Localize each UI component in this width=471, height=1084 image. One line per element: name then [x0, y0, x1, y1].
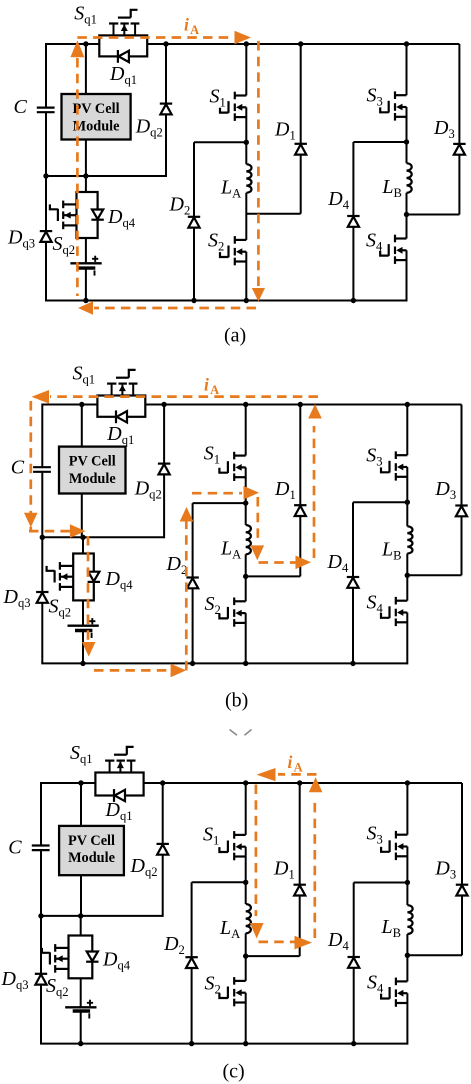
- svg-text:S4: S4: [367, 972, 384, 996]
- wire S2 source to bottom rail (c): [245, 993, 247, 1044]
- svg-text:iA: iA: [288, 752, 303, 775]
- wire Dq2 column (a): [165, 44, 167, 177]
- current path iA elbow to Sq2 with right arrow (b): [29, 524, 85, 538]
- wire battery to bottom rail (a): [85, 268, 87, 300]
- svg-text:Dq1: Dq1: [105, 799, 133, 823]
- svg-text:D3: D3: [433, 117, 455, 141]
- svg-text:(a): (a): [224, 325, 246, 347]
- wire LA lower node to D1 (b): [246, 575, 301, 577]
- wire PV feed from top rail (c): [80, 783, 82, 826]
- node LA output (b): [243, 574, 248, 579]
- wire node B to inductor LB (c): [406, 883, 408, 906]
- svg-text:D4: D4: [327, 551, 349, 575]
- current path iA right vertical with up arrow (c): [309, 777, 323, 938]
- node lower-left rail (a): [43, 173, 48, 178]
- node D2 bottom (a): [191, 298, 196, 303]
- mosfet S4 (b): [381, 597, 407, 626]
- svg-text:D4: D4: [327, 929, 349, 953]
- current path iA top horizontal with left arrow (b): [32, 390, 319, 404]
- node B (a): [404, 139, 409, 144]
- svg-text:S1: S1: [210, 86, 226, 110]
- current path iA left vertical with down arrow (c): [250, 785, 264, 939]
- wire right branch D3 column (b): [461, 405, 463, 576]
- inductor LA (a): [246, 164, 251, 193]
- mosfet S2 (c): [219, 977, 245, 1006]
- diode D1 (b): [294, 505, 306, 516]
- node D2 bottom (c): [189, 1041, 194, 1046]
- wire left rail upper (c): [40, 782, 42, 846]
- node battery bottom (c): [78, 1041, 83, 1046]
- PV cell module block (c): [59, 826, 124, 875]
- svg-text:D1: D1: [274, 478, 296, 502]
- inductor LB (a): [406, 163, 411, 193]
- diode Dq4 (c): [86, 952, 98, 962]
- wire S3 drain from top rail (c): [406, 783, 408, 835]
- svg-text:Sq2: Sq2: [46, 975, 69, 999]
- node S3 top (c): [405, 780, 410, 785]
- node LB output (c): [405, 953, 410, 958]
- wire S1 source to node A (c): [245, 847, 247, 883]
- svg-text:S2: S2: [205, 593, 221, 617]
- wire S2 source to bottom rail (a): [245, 252, 247, 301]
- mosfet S3 (a): [380, 91, 406, 120]
- node LB output (a): [404, 212, 409, 217]
- node battery bottom (a): [83, 298, 88, 303]
- wire node A to D2 branch (a): [194, 141, 246, 143]
- svg-text:S4: S4: [367, 592, 384, 616]
- stray caption artifact marks: [230, 730, 252, 736]
- svg-text:Module: Module: [73, 118, 120, 134]
- svg-text:S3: S3: [367, 823, 383, 847]
- wire S1 source to node A (a): [245, 107, 247, 142]
- svg-text:D1: D1: [273, 858, 295, 882]
- wire Sq2 to battery (b): [82, 600, 84, 625]
- node D4 bottom (a): [351, 298, 356, 303]
- node D1 top (c): [297, 780, 302, 785]
- node S1 top (b): [243, 402, 248, 407]
- wire left rail upper (b): [41, 404, 43, 468]
- wire Sq2 to battery (c): [80, 978, 82, 1007]
- wire top rail stub left of Sq1 box (c): [80, 782, 95, 784]
- node S2 bottom (c): [243, 1041, 248, 1046]
- svg-text:LA: LA: [220, 538, 241, 562]
- diode D3 (c): [456, 885, 468, 896]
- node S2 bottom (b): [243, 661, 248, 666]
- wire node A to inductor LA (c): [245, 882, 247, 904]
- wire left rail lower (b): [41, 472, 43, 664]
- svg-text:iA: iA: [204, 375, 219, 398]
- node A (b): [243, 500, 248, 505]
- svg-text:PV Cell: PV Cell: [69, 454, 116, 470]
- wire node B to inductor LB (b): [406, 502, 408, 526]
- node Sq2 feed (b): [80, 535, 85, 540]
- node LB output (b): [405, 573, 410, 578]
- svg-text:PV Cell: PV Cell: [68, 833, 115, 849]
- wire bottom rail (a): [45, 300, 407, 302]
- mosfet Sq2 (c): [42, 944, 69, 973]
- wire LA to lower node (b): [245, 554, 247, 601]
- diode Dq4 (a): [91, 210, 103, 220]
- wire Sq2 feed (a): [85, 176, 87, 192]
- current path iA node A horizontal with right arrow (b): [192, 486, 259, 500]
- mosfet S1 (c): [219, 831, 245, 860]
- svg-text:Module: Module: [69, 471, 116, 487]
- node A (c): [243, 880, 248, 885]
- wire Sq2 feed (c): [80, 916, 82, 936]
- wire S3 drain from top rail (a): [406, 44, 408, 95]
- wire lower left horizontal (a): [46, 175, 166, 177]
- mosfet Sq1 (b): [107, 370, 137, 396]
- diode Dq3 (a): [40, 231, 52, 242]
- wire top rail right segment (c): [144, 782, 462, 784]
- svg-text:Dq4: Dq4: [107, 206, 136, 230]
- node S3 top (b): [405, 402, 410, 407]
- diode D2 (a): [188, 217, 200, 228]
- svg-text:Dq3: Dq3: [1, 968, 29, 992]
- node S1 top (c): [243, 780, 248, 785]
- wire PV module to lower node (b): [81, 494, 83, 538]
- mosfet S2 (b): [219, 598, 245, 627]
- mosfet S4 (a): [380, 235, 406, 264]
- node D4 bottom (b): [350, 661, 355, 666]
- wire S4 source to bottom rail (c): [406, 993, 408, 1044]
- node D1 top (b): [298, 402, 303, 407]
- current path iA D2 vertical with up arrow (b): [180, 507, 194, 670]
- node lower-left rail (c): [38, 913, 43, 918]
- current path iA left vertical with down arrow (b): [24, 401, 38, 530]
- wire D2 column (b): [192, 503, 194, 663]
- wire S2 source to bottom rail (b): [245, 613, 247, 663]
- wire bottom rail (b): [41, 662, 407, 664]
- battery source (c): [65, 1000, 96, 1019]
- svg-text:D2: D2: [166, 553, 188, 577]
- svg-text:iA: iA: [184, 15, 199, 38]
- inductor LA (c): [246, 904, 251, 933]
- wire D2 column (a): [193, 142, 195, 300]
- svg-text:D2: D2: [169, 194, 191, 218]
- wire D2 column (c): [191, 882, 193, 1043]
- diode Dq1 (b): [116, 410, 127, 423]
- svg-text:D1: D1: [274, 119, 296, 143]
- svg-text:Dq2: Dq2: [135, 116, 163, 140]
- diode Dq1 (c): [114, 789, 125, 802]
- svg-text:Sq2: Sq2: [53, 233, 76, 257]
- node D4 bottom (c): [351, 1041, 356, 1046]
- wire S3 drain from top rail (b): [406, 405, 408, 456]
- wire LB lower node to D3 (a): [407, 214, 460, 216]
- svg-text:S3: S3: [367, 85, 383, 109]
- diode Dq2 (a): [160, 104, 172, 115]
- current path iA top horizontal with left arrow (c): [257, 768, 317, 781]
- svg-text:Module: Module: [68, 850, 115, 866]
- wire node B to inductor LB (a): [406, 142, 408, 163]
- wire right branch D3 column (a): [458, 44, 460, 215]
- svg-text:Dq4: Dq4: [105, 568, 134, 592]
- wire S1 drain from top rail (b): [245, 405, 247, 456]
- mosfet S1 (b): [219, 452, 245, 481]
- wire left rail lower (a): [45, 112, 47, 300]
- svg-text:LB: LB: [381, 916, 402, 940]
- current path iA bottom horizontal with right arrow (b): [94, 664, 186, 678]
- svg-text:D4: D4: [327, 188, 349, 212]
- current path iA left vertical with up arrow (a): [70, 40, 84, 296]
- node PV feed top (c): [78, 780, 83, 785]
- diode D3 (b): [455, 506, 467, 517]
- diode D2 (c): [185, 957, 197, 968]
- wire LB to lower node (b): [406, 554, 408, 601]
- current path iA top horizontal with right arrow (a): [77, 31, 251, 45]
- wire D1 column (c): [299, 783, 301, 956]
- capacitor C (b): [33, 467, 51, 472]
- svg-text:S2: S2: [205, 973, 221, 997]
- svg-text:Sq1: Sq1: [74, 3, 97, 27]
- diode Dq3 (c): [35, 974, 47, 985]
- svg-text:S4: S4: [366, 230, 383, 254]
- node B (c): [405, 880, 410, 885]
- mosfet S3 (b): [381, 451, 407, 480]
- diode D4 (c): [348, 957, 360, 968]
- node Sq2 feed (a): [83, 173, 88, 178]
- wire bottom rail (c): [40, 1043, 407, 1045]
- inductor LB (c): [407, 905, 412, 934]
- wire top rail left segment (b): [42, 404, 97, 406]
- svg-text:S3: S3: [366, 444, 382, 468]
- wire Dq2 column (c): [162, 783, 164, 917]
- wire top rail right segment (b): [145, 404, 461, 406]
- svg-text:S1: S1: [204, 443, 220, 467]
- svg-text:C: C: [14, 96, 28, 118]
- wire left rail upper (a): [45, 43, 47, 108]
- svg-text:S1: S1: [203, 824, 219, 848]
- wire node A to D2 branch (b): [193, 502, 246, 504]
- wire PV module to lower node (c): [80, 875, 82, 916]
- mosfet S2 (a): [220, 236, 246, 265]
- inductor LA (b): [246, 525, 251, 554]
- node S3 top (a): [404, 41, 409, 46]
- node LA output (c): [243, 953, 248, 958]
- capacitor C (a): [37, 108, 55, 113]
- wire node A to inductor LA (b): [245, 503, 247, 525]
- node Dq2 top (a): [163, 41, 168, 46]
- inductor LB (b): [407, 526, 412, 553]
- mosfet Sq1 (c): [105, 747, 135, 773]
- mosfet S4 (c): [381, 978, 407, 1007]
- svg-text:S2: S2: [208, 230, 224, 254]
- diode D1 (a): [295, 144, 307, 155]
- wire node B to D4 branch (c): [354, 882, 408, 884]
- node B (b): [405, 500, 410, 505]
- wire PV feed from top rail (a): [85, 44, 87, 94]
- svg-text:(c): (c): [223, 1061, 245, 1083]
- wire LB lower node to D3 (c): [407, 954, 462, 956]
- diode D4 (a): [347, 216, 359, 227]
- svg-text:(b): (b): [225, 690, 248, 712]
- current path iA LA vertical with down arrow (b): [251, 497, 265, 560]
- switch Sq2 parallel box (b): [73, 554, 94, 601]
- svg-text:Dq3: Dq3: [7, 227, 35, 251]
- node battery bottom (b): [80, 661, 85, 666]
- svg-text:C: C: [8, 837, 22, 859]
- node Sq2 feed (c): [78, 913, 83, 918]
- wire node B to D4 branch (b): [353, 501, 407, 503]
- svg-text:PV Cell: PV Cell: [73, 101, 120, 117]
- svg-text:Sq1: Sq1: [73, 363, 96, 387]
- current path iA D1 vertical with up arrow (b): [308, 404, 322, 558]
- battery source (a): [70, 256, 101, 276]
- svg-text:D3: D3: [434, 857, 456, 881]
- svg-text:D3: D3: [434, 478, 456, 502]
- wire S1 drain from top rail (a): [245, 44, 247, 96]
- wire D4 column (b): [352, 502, 354, 663]
- wire LA lower node to D1 (a): [246, 213, 300, 215]
- PV cell module block (b): [59, 447, 126, 494]
- svg-text:LB: LB: [381, 176, 402, 200]
- wire node A to inductor LA (a): [245, 142, 247, 164]
- switch Sq1 parallel box (c): [95, 773, 143, 796]
- diode D1 (c): [294, 885, 306, 896]
- wire S1 drain from top rail (c): [245, 783, 247, 835]
- diode Dq2 (b): [158, 464, 170, 475]
- wire LB lower node to D3 (b): [407, 574, 461, 576]
- capacitor C (c): [32, 846, 50, 851]
- wire LA to lower node (c): [245, 933, 247, 981]
- node PV feed top (a): [83, 41, 88, 46]
- mosfet Sq1 (a): [109, 10, 139, 36]
- wire lower left horizontal (b): [42, 536, 164, 538]
- svg-text:D2: D2: [163, 933, 185, 957]
- svg-text:Dq1: Dq1: [109, 63, 137, 87]
- svg-text:Dq1: Dq1: [106, 423, 134, 447]
- current path iA bottom horizontal with left arrow (a): [78, 301, 256, 315]
- diode Dq4 (b): [88, 572, 100, 582]
- current path iA LA output horizontal with right arrow (b): [259, 556, 312, 570]
- svg-text:LA: LA: [219, 917, 240, 941]
- node A (a): [244, 140, 249, 145]
- mosfet S3 (c): [381, 831, 407, 860]
- mosfet Sq2 (b): [47, 562, 74, 591]
- svg-text:C: C: [11, 457, 25, 479]
- current path iA battery vertical with down arrow (b): [82, 536, 96, 657]
- wire D4 column (c): [353, 883, 355, 1044]
- wire D1 column (a): [300, 44, 302, 214]
- svg-text:Dq4: Dq4: [102, 949, 131, 973]
- wire LB to lower node (a): [406, 193, 408, 239]
- wire top rail left segment (a): [46, 43, 99, 45]
- mosfet Sq2 (a): [50, 201, 77, 230]
- current path iA bottom horizontal with right arrow (c): [259, 936, 313, 950]
- wire S4 source to bottom rail (a): [406, 250, 408, 301]
- wire node A to D2 branch (c): [192, 881, 246, 883]
- wire Dq2 column (b): [163, 405, 165, 539]
- node lower-left rail (b): [40, 535, 45, 540]
- wire battery to bottom rail (c): [80, 1011, 82, 1044]
- diode Dq1 (a): [118, 50, 129, 63]
- switch Sq1 parallel box (a): [99, 35, 147, 56]
- svg-text:Sq2: Sq2: [49, 596, 72, 620]
- diode D3 (a): [453, 144, 465, 155]
- wire S1 source to node A (b): [245, 467, 247, 503]
- wire node B to D4 branch (a): [353, 141, 406, 143]
- wire PV feed from top rail (b): [81, 405, 83, 447]
- wire top rail left segment (c): [41, 782, 95, 784]
- battery source (b): [68, 618, 99, 638]
- wire S3 source to node B (c): [406, 847, 408, 883]
- mosfet S1 (a): [220, 92, 246, 121]
- diode Dq2 (c): [157, 844, 169, 855]
- wire lower left horizontal (c): [41, 915, 163, 917]
- wire S3 source to node B (a): [406, 107, 408, 142]
- wire Sq2 to battery (a): [85, 238, 87, 263]
- node D2 bottom (b): [190, 661, 195, 666]
- wire top rail right segment (a): [147, 43, 459, 45]
- wire Sq2 feed (b): [82, 537, 84, 553]
- wire battery to bottom rail (b): [82, 631, 84, 664]
- node D1 top (a): [298, 41, 303, 46]
- wire PV module to lower node (a): [85, 140, 87, 177]
- wire S4 source to bottom rail (b): [406, 613, 408, 665]
- diode Dq3 (b): [36, 592, 48, 603]
- wire S3 source to node B (b): [406, 467, 408, 502]
- wire right branch D3 column (c): [461, 783, 463, 955]
- node Dq2 top (c): [160, 780, 165, 785]
- wire LA to lower node (a): [245, 193, 247, 240]
- diode D2 (b): [186, 578, 198, 589]
- node S2 bottom (a): [244, 298, 249, 303]
- wire D4 column (a): [352, 142, 354, 301]
- wire left rail lower (c): [40, 850, 42, 1044]
- svg-text:LA: LA: [220, 177, 241, 201]
- wire top rail stub left of Sq1 box (a): [85, 43, 99, 45]
- svg-text:Dq2: Dq2: [134, 477, 162, 501]
- switch Sq1 parallel box (b): [97, 396, 145, 417]
- svg-text:Dq2: Dq2: [130, 855, 158, 879]
- wire LB to lower node (c): [406, 934, 408, 981]
- node PV feed top (b): [79, 402, 84, 407]
- node S1 top (a): [244, 41, 249, 46]
- PV cell module block (a): [62, 94, 131, 140]
- diode D4 (b): [347, 577, 359, 588]
- wire D1 column (b): [299, 405, 301, 577]
- node Dq2 top (b): [161, 402, 166, 407]
- wire top rail stub left of Sq1 box (b): [81, 404, 98, 406]
- switch Sq2 parallel box (c): [69, 936, 93, 979]
- svg-text:Sq1: Sq1: [70, 742, 93, 766]
- svg-text:LB: LB: [381, 539, 402, 563]
- wire LA lower node to D1 (c): [246, 955, 300, 957]
- current path iA right vertical with down arrow (a): [252, 41, 265, 302]
- switch Sq2 parallel box (a): [77, 192, 98, 238]
- svg-text:Dq3: Dq3: [3, 586, 31, 610]
